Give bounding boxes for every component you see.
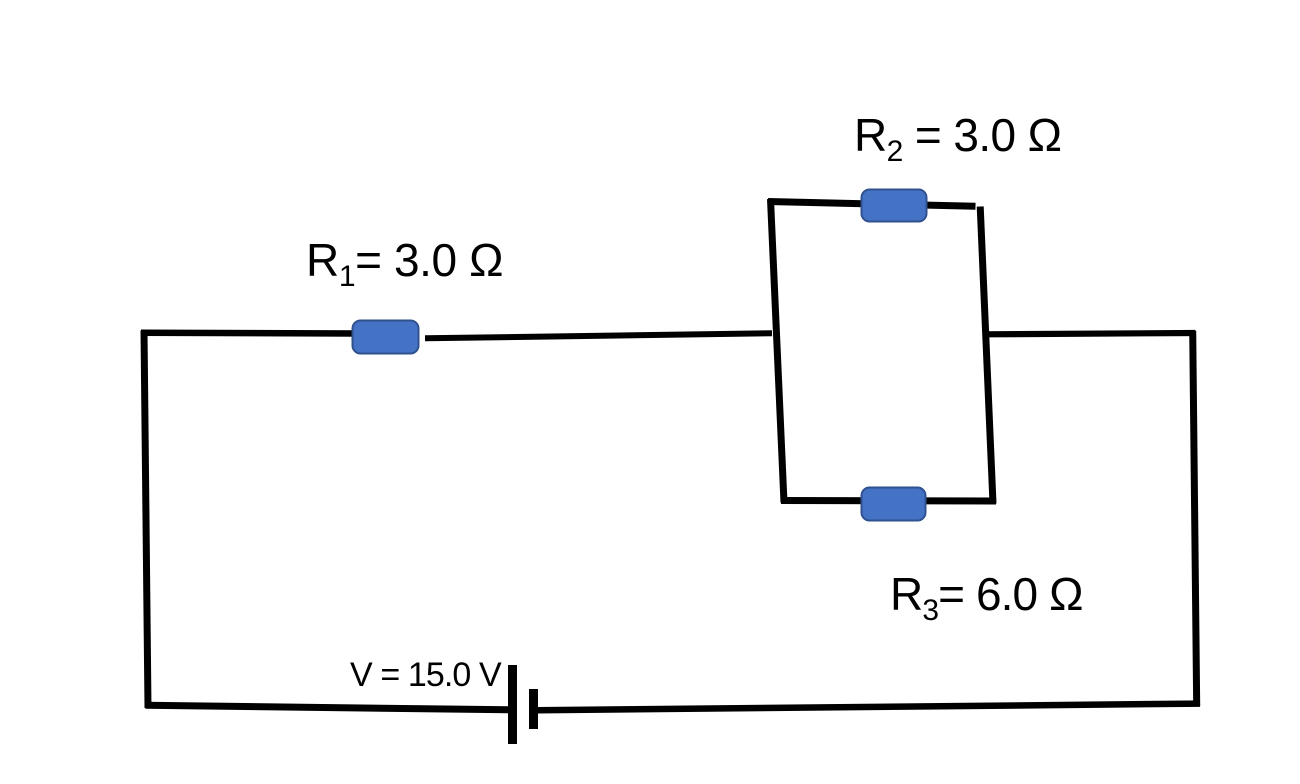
wire: bottom right horizontal (battery to right corner) [537, 704, 1200, 711]
resistor R3 [862, 488, 926, 521]
resistor R2 [862, 190, 927, 222]
wire: parallel bottom horizontal [781, 497, 996, 505]
svg-text:R2 = 3.0 Ω: R2 = 3.0 Ω [854, 109, 1061, 168]
wire: left vertical [144, 331, 148, 709]
wire: top left horizontal (left corner to R1) [141, 330, 356, 337]
svg-text:V = 15.0 V: V = 15.0 V [350, 656, 502, 694]
wire: R1 to parallel section [425, 333, 772, 338]
svg-text:R1= 3.0 Ω: R1= 3.0 Ω [306, 234, 503, 293]
wire: parallel top horizontal [768, 202, 976, 207]
resistor R1 [353, 321, 419, 354]
battery V1 short plate [529, 689, 538, 729]
wire: right vertical [1193, 331, 1197, 707]
svg-text:R3= 6.0 Ω: R3= 6.0 Ω [890, 568, 1083, 627]
wire: parallel right vertical [980, 207, 993, 504]
wire: parallel left vertical [771, 199, 785, 503]
wire: bottom left horizontal (left corner to battery) [146, 705, 512, 710]
wire: parallel section to right vertical [986, 333, 1195, 334]
battery V1 long plate [508, 665, 517, 744]
